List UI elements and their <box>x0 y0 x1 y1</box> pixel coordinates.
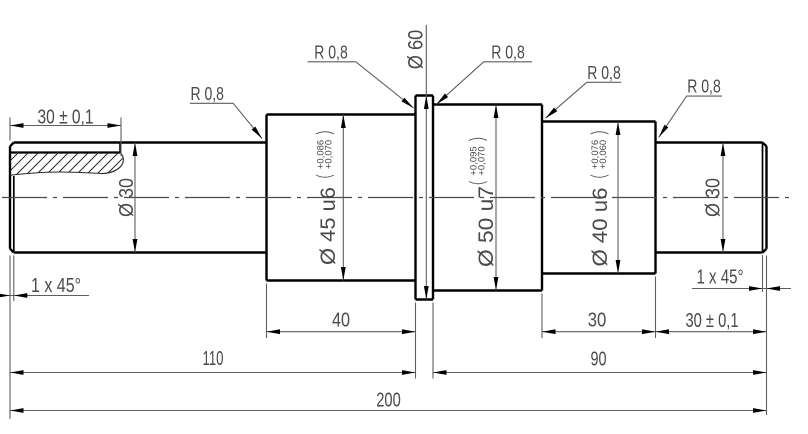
dimension lines <box>0 126 791 411</box>
diameter dimension lines <box>135 25 723 300</box>
tolerance phi50 <box>469 138 488 184</box>
svg-text:+0,070: +0,070 <box>323 140 334 169</box>
leader lines R0,8 <box>190 62 722 139</box>
svg-text:Ø 30: Ø 30 <box>703 178 725 217</box>
svg-text:Ø 60: Ø 60 <box>405 30 428 70</box>
arrowheads <box>10 123 24 128</box>
svg-text:1 x 45°: 1 x 45° <box>697 267 744 289</box>
chamfer edge line right <box>762 143 764 253</box>
svg-text:40: 40 <box>332 310 350 332</box>
keyway end fillet curve <box>101 153 124 174</box>
centerline <box>2 197 791 199</box>
extension lines <box>10 118 767 420</box>
keyway slot <box>10 143 120 153</box>
tolerance phi40 <box>590 132 609 178</box>
diameter label phi60 <box>405 30 428 70</box>
svg-text:R 0,8: R 0,8 <box>687 77 721 97</box>
shaft outline <box>10 96 767 300</box>
break line (wavy) <box>10 172 101 175</box>
diameter label phi50 u7 <box>475 186 498 267</box>
svg-text:110: 110 <box>203 348 224 370</box>
svg-text:30 ± 0,1: 30 ± 0,1 <box>686 310 739 332</box>
svg-text:Ø 40 u6: Ø 40 u6 <box>589 188 612 267</box>
svg-text:R 0,8: R 0,8 <box>314 42 348 62</box>
svg-text:30: 30 <box>588 310 607 332</box>
chamfer edge line left <box>13 176 15 253</box>
svg-text:R 0,8: R 0,8 <box>491 42 525 62</box>
diameter label phi30 left <box>116 178 138 217</box>
diameter label phi40 u6 <box>589 188 612 267</box>
svg-text:Ø 50 u7: Ø 50 u7 <box>475 186 498 267</box>
tolerance phi45 <box>316 132 335 178</box>
svg-text:1 x 45°: 1 x 45° <box>31 275 81 297</box>
svg-text:R 0,8: R 0,8 <box>190 84 224 104</box>
svg-text:90: 90 <box>591 349 607 371</box>
svg-text:Ø 45 u6: Ø 45 u6 <box>317 187 340 265</box>
svg-text:Ø 30: Ø 30 <box>116 178 138 217</box>
svg-text:R 0,8: R 0,8 <box>587 63 621 83</box>
svg-text:200: 200 <box>376 390 401 412</box>
diameter label phi30 right <box>703 178 725 217</box>
svg-text:30 ± 0,1: 30 ± 0,1 <box>38 107 94 129</box>
diameter label phi45 u6 <box>317 187 340 265</box>
svg-text:+0,060: +0,060 <box>598 140 609 169</box>
svg-text:+0,070: +0,070 <box>476 146 487 175</box>
